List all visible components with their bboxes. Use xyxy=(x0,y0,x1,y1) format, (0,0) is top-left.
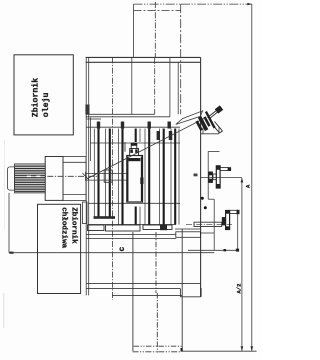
slot top dark blobs xyxy=(97,122,172,141)
pedestal xyxy=(133,229,183,353)
svg-text:chłodziwa: chłodziwa xyxy=(60,207,68,248)
interior verticals upper body xyxy=(111,57,113,300)
table under-rails xyxy=(86,234,176,236)
body left edge double xyxy=(85,57,87,295)
base plate outline xyxy=(8,193,10,253)
oleju box xyxy=(14,55,73,135)
table bottom line xyxy=(88,224,177,226)
motor end cap xyxy=(7,167,14,190)
top centerline dash-dot xyxy=(181,3,252,5)
floor line xyxy=(181,350,257,352)
right side profile xyxy=(201,152,220,251)
shallow tray right of table xyxy=(176,232,201,238)
scan edge artifacts (very faint) xyxy=(3,140,5,328)
assembly rod with knob xyxy=(208,109,219,118)
svg-text:Zbiornik: Zbiornik xyxy=(69,207,77,244)
arrow A/2 top xyxy=(241,178,244,183)
main diagonal xyxy=(88,119,205,179)
spindle band / motor xyxy=(7,157,214,254)
crank return line xyxy=(237,214,239,250)
handwheel 2 (lower) xyxy=(186,210,240,252)
slot end boxes xyxy=(88,225,173,231)
dark clamp block at table end xyxy=(160,225,167,230)
wedge band xyxy=(176,111,203,125)
table left end thick bar xyxy=(94,216,116,219)
gearbox xyxy=(45,157,63,201)
centerline-height line to A/2 xyxy=(201,176,242,178)
body bottom lines xyxy=(86,283,201,296)
arrow A/2 bottom xyxy=(241,346,244,351)
handwheel 1 (upper) xyxy=(194,166,232,188)
dimension line A/2 xyxy=(241,178,243,351)
motor fins xyxy=(15,164,46,193)
column centerline xyxy=(154,2,156,58)
body right edge xyxy=(200,57,202,296)
table T-slots xyxy=(86,122,200,239)
bracket under assembly xyxy=(201,127,219,134)
mid horizontals xyxy=(86,113,155,115)
dark latch on body left edge xyxy=(85,105,89,115)
chlodziwa box xyxy=(38,202,88,294)
arrow A bottom xyxy=(251,346,254,351)
svg-text:A/2: A/2 xyxy=(235,284,242,294)
saddle (center slide) xyxy=(122,142,143,202)
centerline gaps across fins xyxy=(27,176,31,178)
bearing block xyxy=(104,170,112,182)
two dots xyxy=(201,197,204,200)
svg-text:c: c xyxy=(118,247,127,252)
body top double line xyxy=(86,56,201,58)
upper column xyxy=(134,3,182,5)
assembly lower bar xyxy=(212,124,220,134)
clamp dog on saddle right edge xyxy=(140,178,143,185)
table rails xyxy=(88,143,180,203)
tilted assembly (wheel head clamp) xyxy=(194,111,216,134)
svg-text:Zbiornik: Zbiornik xyxy=(31,78,41,117)
dimension line A (right, full height) xyxy=(251,4,253,351)
svg-text:oleju: oleju xyxy=(41,93,51,118)
